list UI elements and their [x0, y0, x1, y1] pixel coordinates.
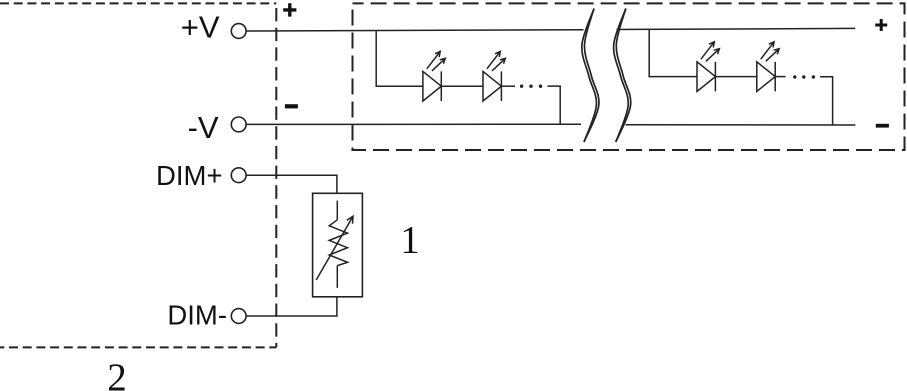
wire D2 to dots	[501, 85, 515, 87]
terminal DIM+ circle	[231, 168, 246, 183]
polarity label - (right)	[876, 124, 889, 128]
polarity label + (left)	[283, 3, 296, 16]
polarity label - (left)	[285, 104, 298, 108]
potentiometer zigzag resistor	[329, 220, 347, 266]
wire DIM+ to potentiometer	[246, 175, 337, 193]
svg-text:2: 2	[107, 356, 127, 391]
svg-text:-V: -V	[188, 110, 219, 145]
LED D1	[423, 51, 445, 101]
wire DIM- to potentiometer	[246, 297, 337, 316]
LED D3	[697, 42, 719, 92]
wire D1 to D2	[441, 85, 483, 87]
svg-text:DIM+: DIM+	[156, 160, 222, 191]
wire drop to LED string 1	[376, 31, 423, 87]
potentiometer top lead	[336, 201, 338, 220]
potentiometer VR (unit 1) box	[313, 193, 363, 296]
terminal -V circle	[231, 117, 246, 132]
svg-text:1: 1	[400, 219, 420, 262]
terminal DIM- circle	[231, 309, 246, 324]
LED module dashed box	[353, 3, 905, 150]
polarity label + (right)	[875, 19, 887, 31]
wire D4 to dots	[775, 76, 785, 78]
wire D3 to D4	[715, 76, 756, 78]
svg-text:+V: +V	[181, 9, 220, 44]
potentiometer arrow	[316, 216, 353, 280]
wire -V rail left segment	[246, 123, 581, 125]
driver dashed box (unit 2)	[0, 2, 276, 4]
continuation dots string 2	[793, 75, 815, 78]
break squiggle 2	[614, 9, 631, 143]
wire -V rail right segment	[626, 124, 856, 126]
continuation dots string 1	[520, 85, 542, 88]
wire string 1 end drop	[547, 86, 560, 124]
wire +V rail left segment	[246, 30, 583, 31]
wire string 2 end drop	[820, 77, 833, 125]
break squiggle 1	[582, 9, 599, 143]
potentiometer bottom lead	[336, 266, 338, 288]
svg-text:DIM-: DIM-	[167, 300, 227, 331]
wire +V rail right segment	[617, 28, 856, 29]
LED D4	[757, 42, 779, 92]
LED D2	[483, 51, 505, 101]
wire drop to LED string 2	[649, 29, 697, 76]
terminal +V circle	[231, 24, 246, 39]
